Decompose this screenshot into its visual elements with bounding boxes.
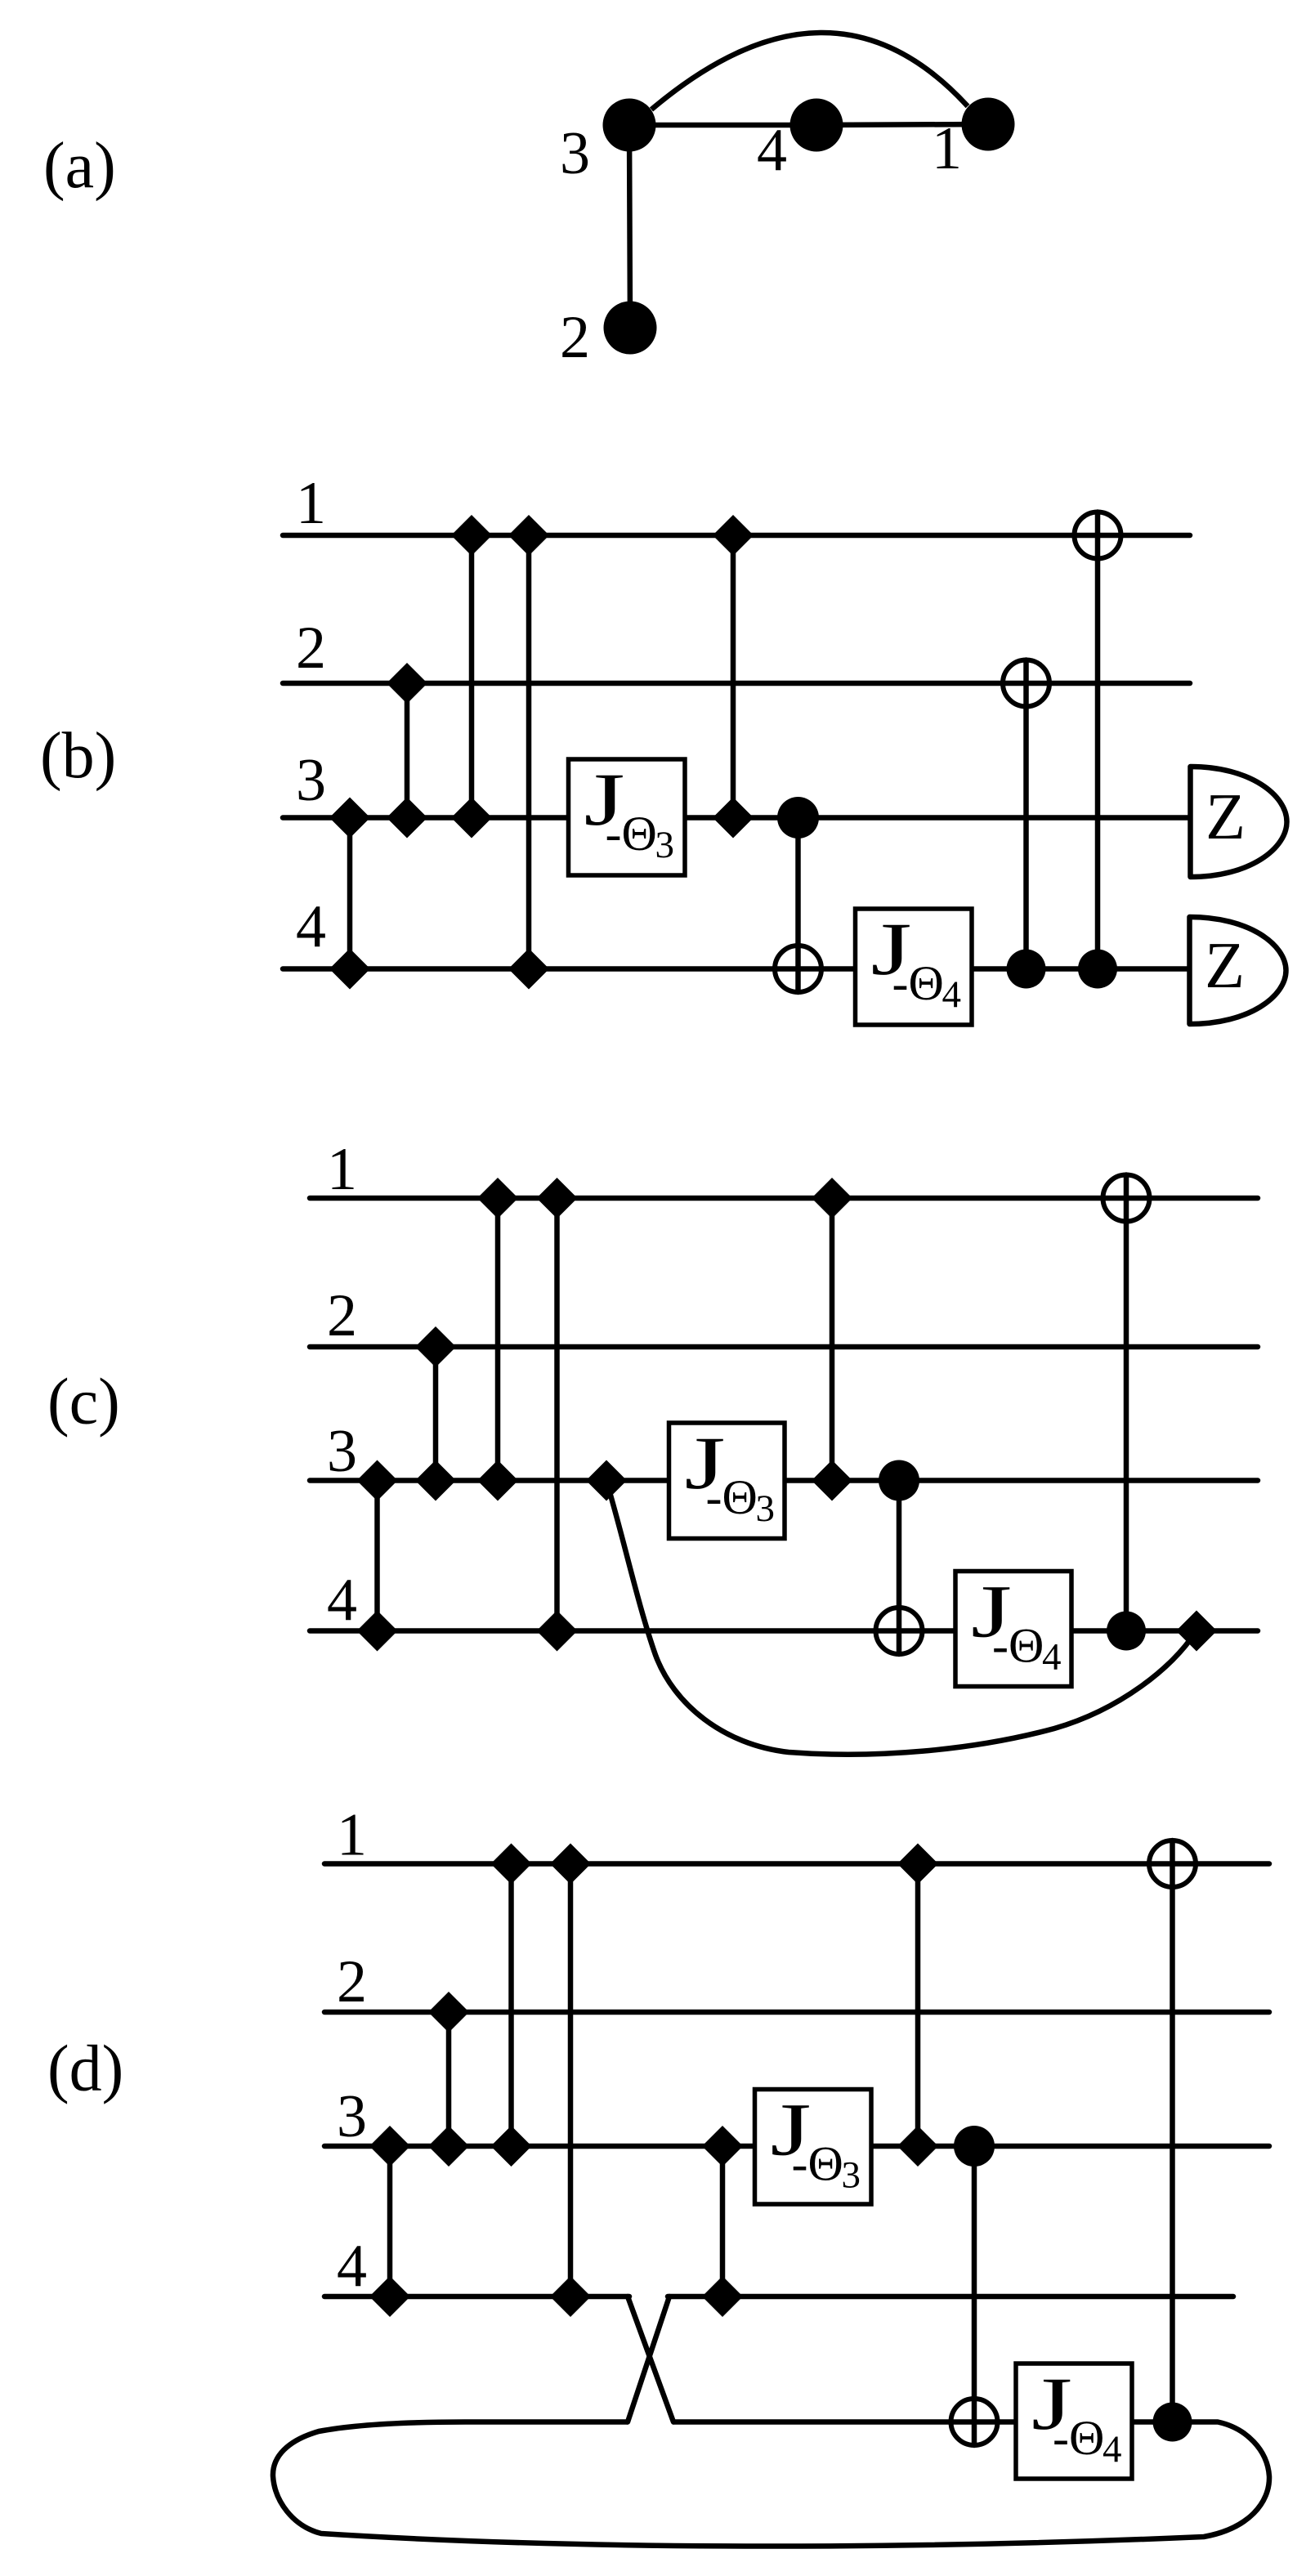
CNOT wire q4-q1 [1124, 1175, 1129, 1631]
coupler diamond q3 [812, 1460, 852, 1501]
coupler diamond q1 [713, 515, 754, 556]
qubit wire 2 [324, 2010, 1269, 2015]
svg-text:(c): (c) [47, 1366, 120, 1438]
qubit wire 4 [310, 1628, 1258, 1634]
CNOT wire q3-rail [972, 2146, 977, 2445]
coupler diamond q3 [491, 2126, 532, 2167]
svg-text:2: 2 [327, 1282, 357, 1349]
qubit wire 1 [283, 533, 1190, 539]
coupler wire q3-q4 [374, 1481, 380, 1631]
coupler wire q1-q4 [526, 535, 532, 969]
svg-text:3: 3 [655, 824, 675, 866]
coupler diamond q1 [812, 1178, 852, 1219]
coupler diamond q2 [387, 663, 427, 704]
coupler diamond q3 [387, 798, 427, 839]
svg-text:-Θ: -Θ [606, 807, 657, 861]
coupler diamond q4 [702, 2276, 743, 2317]
svg-text:4: 4 [757, 117, 787, 184]
svg-text:3: 3 [560, 120, 590, 187]
coupler diamond q3 [428, 2126, 469, 2167]
coupler diamond q1 [537, 1178, 578, 1219]
svg-text:4: 4 [296, 893, 326, 960]
svg-text:-Θ: -Θ [892, 956, 944, 1010]
coupler diamond q2 [415, 1326, 456, 1367]
qubit wire 3 [283, 815, 1192, 821]
CNOT target rail [951, 2399, 998, 2445]
qubit wire 4 right segment [668, 2294, 1233, 2300]
svg-text:(b): (b) [40, 720, 116, 792]
qubit wire 1 [310, 1196, 1258, 1201]
node 2 [604, 302, 657, 355]
edge 4-1 [816, 124, 988, 125]
gate J-Theta4 [1016, 2362, 1132, 2479]
svg-text:-Θ: -Θ [992, 1619, 1044, 1673]
CNOT control q4 [1007, 950, 1046, 989]
qubit wire 2 [283, 681, 1190, 686]
CNOT control q4 [1107, 1612, 1146, 1651]
coupler diamond q3 [897, 2126, 938, 2167]
CNOT control q3 [879, 1460, 919, 1501]
coupler diamond q3 [369, 2126, 410, 2167]
svg-text:1: 1 [337, 1802, 367, 1869]
edge 3-4 [629, 123, 816, 128]
coupler wire q2-q3 [433, 1347, 439, 1481]
CNOT wire q4-q1 [1095, 512, 1101, 969]
coupler diamond q3 [329, 798, 370, 839]
CNOT target q1 [1149, 1840, 1196, 1887]
wrap-around loop wire [273, 2422, 1269, 2547]
coupler wire q3-q4 [720, 2146, 726, 2296]
coupler diamond q4 [550, 2276, 591, 2317]
gate J-Theta4 [856, 907, 973, 1025]
qubit wire 4 left segment [324, 2294, 629, 2300]
svg-text:3: 3 [756, 1487, 776, 1530]
long-range coupler curve q3-q4 [606, 1481, 1195, 1755]
coupler diamond q3 [713, 798, 754, 839]
coupler diamond q3 [586, 1460, 627, 1501]
coupler diamond q4 [357, 1611, 398, 1652]
coupler diamond q3 [702, 2126, 743, 2167]
gate J-Theta3 [669, 1421, 785, 1539]
coupler diamond q4 (curve end) [1176, 1611, 1217, 1652]
gate J-Theta4 [955, 1570, 1071, 1687]
coupler wire q1-q4 [554, 1198, 560, 1631]
svg-text:(d): (d) [47, 2033, 123, 2105]
CNOT target q1 [1075, 512, 1121, 559]
coupler wire q1-q3 [495, 1198, 501, 1481]
coupler diamond q3 [415, 1460, 456, 1501]
svg-text:3: 3 [327, 1418, 357, 1485]
coupler diamond q2 [428, 1992, 469, 2033]
coupler diamond q4 [508, 949, 549, 990]
svg-text:2: 2 [296, 615, 326, 682]
coupler diamond q1 [897, 1844, 938, 1885]
svg-text:4: 4 [942, 973, 962, 1016]
coupler wire q3-q4 [347, 818, 353, 969]
svg-text:(a): (a) [43, 130, 116, 202]
CNOT target q1 [1103, 1175, 1150, 1222]
CNOT wire q3-q4 [897, 1481, 902, 1655]
svg-text:1: 1 [327, 1136, 357, 1203]
coupler diamond q4 [537, 1611, 578, 1652]
CNOT control q4 [1078, 950, 1117, 989]
coupler wire q1-q3 [508, 1864, 514, 2147]
swap crossing stroke down [628, 2296, 673, 2422]
edge 3-1 curved arc [651, 33, 968, 110]
coupler diamond q1 [477, 1178, 518, 1219]
svg-text:4: 4 [327, 1567, 357, 1634]
svg-text:2: 2 [560, 304, 590, 371]
coupler wire q3-q4 [387, 2146, 393, 2296]
Z measurement q3 [1191, 767, 1287, 877]
coupler diamond q3 [451, 798, 492, 839]
svg-text:1: 1 [932, 115, 962, 182]
qubit wire 3 [324, 2144, 1269, 2149]
CNOT target q4 [775, 946, 821, 992]
swap crossing stroke up [628, 2296, 669, 2422]
svg-text:4: 4 [1103, 2428, 1122, 2471]
CNOT wire q3-q4 [795, 818, 801, 993]
coupler wire q1-q3 [731, 535, 736, 818]
Z measurement q4 [1190, 917, 1286, 1024]
coupler diamond q4 [329, 949, 370, 990]
CNOT wire q4-q2 [1023, 660, 1029, 969]
edge 3-2 [629, 125, 630, 328]
CNOT target q2 [1003, 660, 1049, 707]
coupler diamond q1 [451, 515, 492, 556]
node 1 [962, 98, 1015, 151]
svg-text:3: 3 [842, 2154, 861, 2197]
CNOT target q4 [876, 1608, 923, 1654]
svg-text:2: 2 [337, 1948, 367, 2015]
coupler wire q1-q4 [568, 1864, 574, 2297]
node 4 [790, 99, 843, 152]
svg-text:1: 1 [296, 470, 326, 537]
coupler diamond q1 [491, 1844, 532, 1885]
svg-text:Z: Z [1205, 781, 1246, 853]
svg-text:Z: Z [1205, 930, 1245, 1002]
coupler diamond q3 [477, 1460, 518, 1501]
gate J-Theta3 [569, 758, 686, 875]
coupler diamond q1 [550, 1844, 591, 1885]
svg-text:-Θ: -Θ [706, 1470, 758, 1524]
coupler wire q1-q3 [469, 535, 475, 818]
coupler diamond q1 [508, 515, 549, 556]
qubit wire 2 [310, 1344, 1258, 1350]
coupler diamond q3 [357, 1460, 398, 1501]
svg-text:3: 3 [337, 2083, 367, 2150]
CNOT wire rail-q1 [1170, 1840, 1175, 2422]
CNOT control q3 [954, 2126, 995, 2167]
CNOT control rail [1153, 2403, 1192, 2442]
coupler wire q1-q3 [915, 1864, 921, 2147]
svg-text:-Θ: -Θ [792, 2137, 843, 2191]
node 3 [603, 99, 656, 152]
coupler wire q2-q3 [405, 683, 410, 818]
gate J-Theta3 [755, 2088, 872, 2205]
qubit wire 1 [324, 1861, 1269, 1867]
svg-text:4: 4 [337, 2233, 367, 2300]
qubit wire 4 [283, 966, 1191, 972]
coupler wire q2-q3 [446, 2012, 452, 2146]
svg-text:-Θ: -Θ [1053, 2411, 1104, 2465]
CNOT control q3 [777, 797, 819, 839]
coupler wire q1-q3 [830, 1198, 835, 1481]
svg-text:3: 3 [296, 747, 326, 814]
svg-text:4: 4 [1042, 1636, 1062, 1679]
coupler diamond q4 [369, 2276, 410, 2317]
qubit wire 3 [310, 1478, 1258, 1483]
